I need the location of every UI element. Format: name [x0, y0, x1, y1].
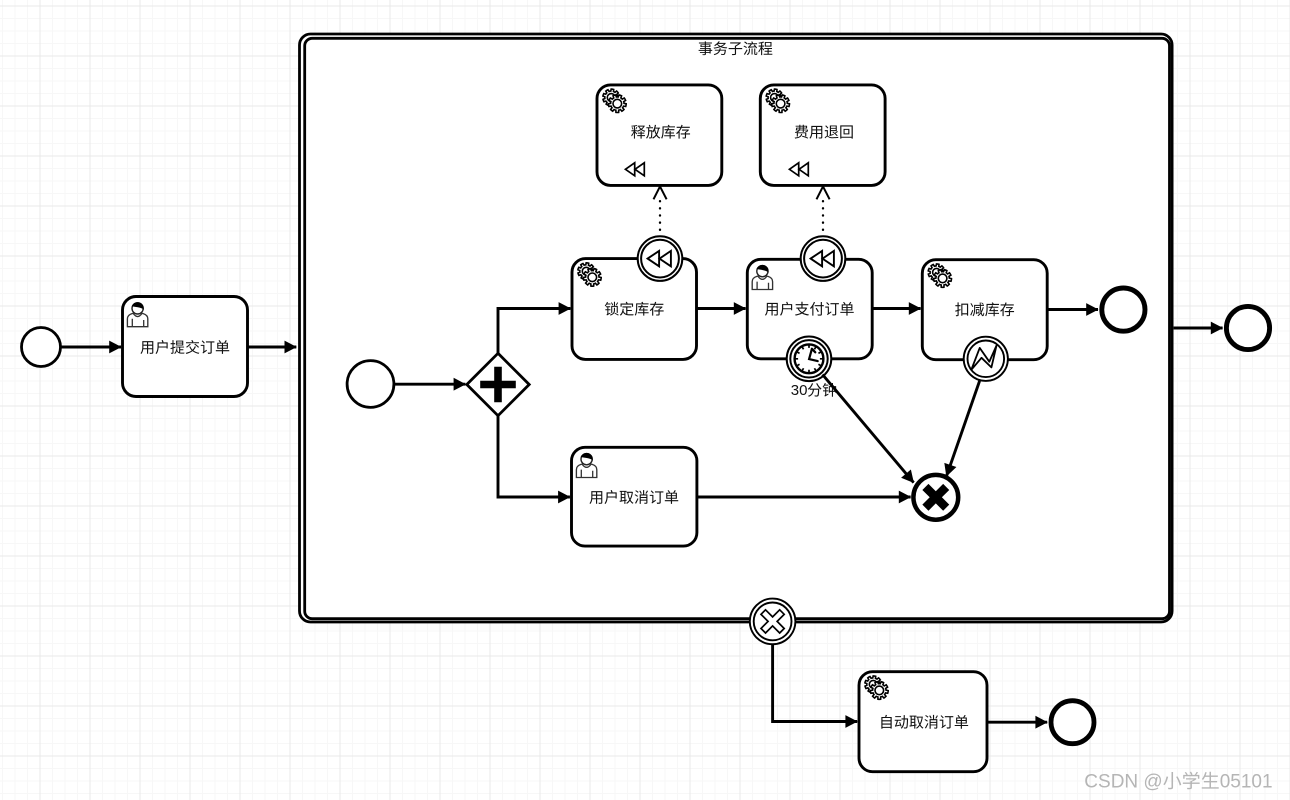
error boundary event on 扣减库存 — [964, 337, 1008, 381]
compensation task 释放库存 (service) — [597, 85, 722, 185]
wire timer boundary to cancel end event — [823, 375, 914, 483]
association 用户支付订单 boundary to 费用退回 (dotted) — [822, 195, 824, 237]
task 锁定库存 (service) — [572, 259, 697, 360]
compensation boundary event on 锁定库存 — [638, 236, 683, 281]
task 用户取消订单 (user) — [572, 447, 697, 546]
cancel end event — [913, 475, 958, 520]
compensation boundary event on 用户支付订单 — [801, 236, 846, 281]
wire 扣减库存 to inner end event — [1048, 308, 1099, 311]
end event (inner) — [1102, 288, 1145, 331]
wire 用户取消订单 to cancel end event — [697, 496, 910, 499]
subprocess 事务子流程 container (double border) — [300, 34, 1173, 622]
task 用户提交订单 — [123, 297, 248, 397]
svg-text:05101: 05101 — [1220, 771, 1273, 792]
association 锁定库存 boundary to 释放库存 (dotted) — [659, 195, 661, 237]
parallel gateway — [467, 353, 529, 415]
subprocess title 事务子流程 — [699, 41, 773, 55]
wire start to task 用户提交订单 — [61, 346, 121, 349]
wire subprocess to outer end event — [1174, 327, 1223, 330]
cancel boundary event on subprocess — [750, 599, 796, 645]
wire gateway to task 用户取消订单 — [498, 416, 570, 497]
end event (after 自动取消订单) — [1051, 701, 1094, 744]
task 扣减库存 (service) — [922, 260, 1047, 360]
wire gateway to task 锁定库存 — [498, 309, 570, 354]
task 用户支付订单 (user) — [747, 259, 872, 359]
wire 自动取消订单 to end event — [988, 721, 1047, 724]
compensation task 费用退回 (service) — [760, 85, 885, 185]
end event (outer) — [1226, 306, 1269, 349]
task 自动取消订单 (service) — [859, 672, 987, 772]
watermark CSDN @小学生05101 — [1084, 771, 1272, 792]
timer boundary event on 用户支付订单 — [787, 337, 832, 382]
svg-text:CSDN @: CSDN @ — [1084, 771, 1162, 792]
wire inner start to gateway — [394, 383, 465, 386]
wire cancel boundary to 自动取消订单 — [773, 644, 858, 721]
wire error boundary to cancel end event — [947, 381, 980, 476]
wire task 用户提交订单 to subprocess — [248, 346, 296, 349]
start event (outer) — [22, 328, 61, 367]
wire 锁定库存 to 用户支付订单 — [697, 307, 746, 310]
wire 用户支付订单 to 扣减库存 — [873, 307, 921, 310]
svg-text:30: 30 — [791, 382, 808, 399]
start event (inner) — [347, 361, 394, 408]
